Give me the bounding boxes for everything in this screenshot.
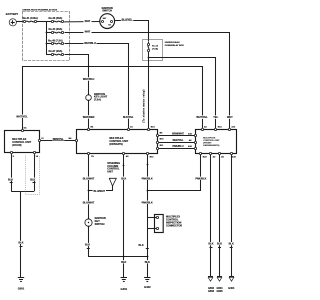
svg-text:WHT: WHT bbox=[85, 20, 91, 23]
svg-text:No.37 (20A): No.37 (20A) bbox=[49, 50, 63, 53]
ignition switch SW1 bbox=[100, 7, 115, 29]
BLU/WHT column below middle box bbox=[82, 155, 95, 219]
ground wire left G501 bbox=[18, 191, 25, 277]
svg-text:PNK/BLK: PNK/BLK bbox=[142, 201, 153, 204]
G401 column bbox=[120, 155, 127, 278]
wire key light to B5 bbox=[88, 100, 90, 129]
dashed bracket under left box bbox=[26, 156, 40, 195]
svg-text:BLK: BLK bbox=[217, 243, 222, 246]
wire row2 WHT to right bbox=[65, 33, 230, 130]
svg-text:G401: G401 bbox=[121, 287, 128, 291]
battery B1 bbox=[6, 12, 19, 26]
ground symbol G402 bbox=[144, 278, 151, 289]
svg-text:UNDER-HOOD FUSE/RELAY BOX: UNDER-HOOD FUSE/RELAY BOX bbox=[22, 8, 57, 11]
label WHT bbox=[226, 115, 234, 118]
wire BRN/YEL left box to middle box bbox=[41, 140, 77, 142]
svg-text:PASSENGER'S): PASSENGER'S) bbox=[203, 144, 219, 147]
fuse No.13 (7.5A) bbox=[147, 42, 158, 129]
ignition key switch S2 bbox=[85, 217, 106, 227]
wire WHT/YEL rail bbox=[23, 67, 203, 131]
svg-text:PNK/BLK: PNK/BLK bbox=[195, 177, 206, 180]
svg-text:BLK: BLK bbox=[85, 244, 90, 247]
ground symbol G401 bbox=[121, 278, 128, 291]
svg-text:PNK/BLU: PNK/BLU bbox=[172, 145, 183, 148]
label WHT/YEL left rail bbox=[15, 115, 28, 118]
svg-text:WHT: WHT bbox=[85, 31, 91, 34]
svg-text:BATTERY: BATTERY bbox=[6, 12, 19, 16]
wire key switch to ground junction bbox=[84, 227, 148, 257]
ground terminal chevron 3 bbox=[228, 277, 235, 290]
fuse No.44 (20A) bbox=[46, 28, 64, 34]
svg-text:FUSE/RELAY BOX: FUSE/RELAY BOX bbox=[165, 44, 185, 47]
fuse No.37 (20A) bbox=[46, 50, 64, 56]
svg-text:G402: G402 bbox=[144, 285, 151, 289]
fuse No.45 (7.5A) bbox=[46, 39, 64, 44]
fuse No.31 (100A) bbox=[23, 17, 38, 22]
svg-text:BLU/WHT: BLU/WHT bbox=[94, 190, 106, 193]
svg-text:BLK: BLK bbox=[121, 177, 126, 180]
multiplex control unit (driver's) middle box U2 bbox=[75, 126, 164, 159]
branch to arrow (other circuit) bbox=[89, 162, 121, 193]
label YEL bbox=[212, 115, 219, 118]
svg-text:BLK: BLK bbox=[208, 243, 213, 246]
under-hood fuse/relay box (dashed) bbox=[23, 12, 70, 61]
bus vertical in fuse box bbox=[46, 22, 48, 55]
svg-text:G404: G404 bbox=[228, 287, 235, 290]
svg-text:(7.5A): (7.5A) bbox=[152, 48, 158, 51]
wire row4 from fuse 37 bbox=[65, 55, 89, 98]
ground symbol G501 bbox=[18, 278, 25, 291]
svg-text:WHT/RED: WHT/RED bbox=[83, 116, 95, 119]
B12 / PNK-BLK column bbox=[138, 155, 154, 278]
svg-text:SWITCH: SWITCH bbox=[95, 223, 105, 226]
wire fuse31 to bus bbox=[37, 21, 47, 23]
wire YEL branch to right box bbox=[149, 58, 216, 130]
svg-text:BRN/YEL: BRN/YEL bbox=[53, 138, 64, 141]
svg-text:WHT/YEL: WHT/YEL bbox=[16, 115, 28, 118]
BLK ground wires from passenger box bbox=[208, 155, 215, 277]
ignition key light L1 bbox=[86, 93, 108, 102]
svg-text:BLK: BLK bbox=[18, 242, 23, 245]
svg-text:UNDER-DASH: UNDER-DASH bbox=[165, 41, 180, 44]
multiplex control inspection connector bbox=[147, 215, 182, 233]
wires middle box to passenger box bbox=[159, 135, 196, 137]
multiplex control unit (driver's) box U1 bbox=[5, 127, 45, 158]
svg-text:YEL: YEL bbox=[213, 116, 218, 119]
svg-text:G505: G505 bbox=[216, 290, 223, 293]
under-dash fuse/relay box bbox=[143, 40, 185, 61]
svg-text:BLK: BLK bbox=[229, 243, 234, 246]
label BLK/YEL column bbox=[122, 115, 135, 118]
svg-text:G503: G503 bbox=[208, 290, 215, 293]
svg-text:(DRIVER'S): (DRIVER'S) bbox=[109, 143, 123, 146]
svg-text:BLU/WHT: BLU/WHT bbox=[83, 177, 95, 180]
svg-text:(To starter motor relay): (To starter motor relay) bbox=[142, 89, 145, 122]
svg-text:No.45 (7.5A): No.45 (7.5A) bbox=[48, 39, 63, 42]
svg-text:PNK/BLK: PNK/BLK bbox=[142, 177, 153, 180]
junction dots on bus bbox=[46, 32, 48, 34]
svg-text:IG1: IG1 bbox=[108, 25, 111, 27]
svg-text:WHT/BLU: WHT/BLU bbox=[83, 78, 95, 81]
svg-text:BLK: BLK bbox=[145, 261, 150, 264]
svg-text:BLU/YEL: BLU/YEL bbox=[122, 18, 133, 21]
ground terminal chevron 2 bbox=[216, 277, 223, 293]
wire row3 BLK/YEL down to multiplex control unit A1 bbox=[65, 44, 129, 130]
svg-text:G501: G501 bbox=[18, 287, 25, 291]
fuse No.43 (50A) bbox=[46, 17, 64, 22]
svg-text:CONNECTOR: CONNECTOR bbox=[166, 224, 182, 227]
svg-text:(DOOR): (DOOR) bbox=[12, 144, 21, 147]
svg-text:No.43 (50A): No.43 (50A) bbox=[49, 17, 63, 20]
wire ignition switch out BLU/YEL bbox=[115, 21, 149, 42]
ground terminal chevron 1 bbox=[208, 277, 215, 293]
label WHT/BLU on key light branch bbox=[82, 77, 95, 80]
svg-text:UNIT: UNIT bbox=[107, 170, 113, 173]
svg-text:BLK: BLK bbox=[139, 244, 144, 247]
wire row1 WHT to ignition switch bbox=[64, 21, 100, 23]
BLK wires under left box bbox=[7, 154, 36, 191]
svg-text:BRN/WHT: BRN/WHT bbox=[172, 133, 184, 136]
svg-text:No.31 (100A): No.31 (100A) bbox=[23, 17, 38, 20]
B22 PNK/BLK wire from passenger box bbox=[148, 155, 208, 191]
svg-text:BLK: BLK bbox=[8, 178, 13, 181]
svg-text:WHT: WHT bbox=[227, 116, 233, 119]
junction fuse37/rail bbox=[88, 66, 90, 68]
svg-text:BLK/YEL: BLK/YEL bbox=[123, 116, 134, 119]
wire battery to fuse box bbox=[16, 21, 24, 23]
multiplex control unit (passenger's) box U3 bbox=[188, 126, 237, 159]
svg-text:No.44 (20A): No.44 (20A) bbox=[49, 28, 63, 31]
svg-text:BLK: BLK bbox=[121, 261, 126, 264]
svg-text:No.13: No.13 bbox=[152, 46, 159, 48]
svg-text:WHT/BLU: WHT/BLU bbox=[84, 42, 96, 45]
svg-text:WHT/YEL: WHT/YEL bbox=[196, 116, 208, 119]
junction fuse13 out bbox=[148, 57, 150, 59]
label WHT/YEL right rail bbox=[195, 115, 208, 118]
svg-text:SWITCH: SWITCH bbox=[102, 10, 112, 13]
svg-text:BLK: BLK bbox=[30, 178, 35, 181]
svg-text:BLU/WHT: BLU/WHT bbox=[83, 202, 95, 205]
svg-text:(7.5A): (7.5A) bbox=[94, 99, 101, 102]
svg-text:RED/YEL: RED/YEL bbox=[173, 139, 184, 142]
